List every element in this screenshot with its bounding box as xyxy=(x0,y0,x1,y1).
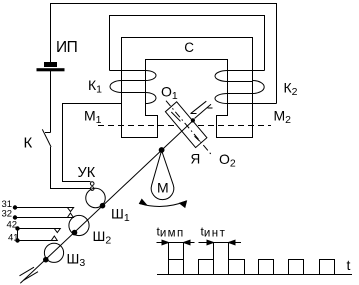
shaft link marks near armature xyxy=(191,101,213,118)
junction dot on armature xyxy=(191,119,194,122)
coil K1 turn 2 (window side) xyxy=(146,93,157,104)
wire M1 lead (coil K1 bottom to УК upper contact) xyxy=(63,104,122,182)
pivot dot xyxy=(159,148,164,153)
contact line 32 xyxy=(13,213,73,219)
wire battery to switch xyxy=(50,71,52,133)
contact line 31 xyxy=(13,206,73,212)
coil K2 turn 2 (window side) xyxy=(215,94,228,104)
pendulum M arms and bob xyxy=(151,151,174,200)
svg-text:УК: УК xyxy=(78,165,96,181)
armature hatch 1 xyxy=(171,112,180,121)
waveform pulse 2 xyxy=(199,260,214,275)
svg-text:С: С xyxy=(184,40,194,55)
dimension t_инт xyxy=(199,240,242,259)
wire outer loop bottom-right lead xyxy=(228,103,277,105)
dimension t_имп xyxy=(157,240,195,259)
svg-text:tимп: tимп xyxy=(157,225,185,240)
waveform pulse 1 xyxy=(169,260,184,275)
waveform pulse 6 xyxy=(320,260,335,275)
coil K1 link 1 xyxy=(122,80,146,82)
battery ИП xyxy=(37,63,64,71)
coil K2 turn 1 (window side) xyxy=(215,71,228,82)
svg-text:tинт: tинт xyxy=(201,225,227,240)
shaft (ratchet rod) xyxy=(20,121,193,284)
shaft break marks xyxy=(20,267,39,280)
dot Ш3 xyxy=(44,257,49,262)
svg-text:32: 32 xyxy=(2,209,13,220)
armature Я body xyxy=(165,102,207,148)
contact line 42 xyxy=(16,227,61,233)
coil K1 outer turn xyxy=(110,81,121,93)
armature hatch 2 xyxy=(195,136,200,141)
waveform pulse 5 xyxy=(289,260,304,275)
contact УК lower circle xyxy=(90,187,94,191)
coil K2 outer turn xyxy=(253,81,265,94)
coil K2 link 1 xyxy=(228,81,253,83)
pendulum swing arrow xyxy=(140,199,187,207)
wire outer loop top xyxy=(51,4,277,104)
svg-text:t: t xyxy=(347,257,351,273)
dashed pole line M1-M2 xyxy=(98,125,271,127)
svg-text:42: 42 xyxy=(7,220,18,231)
contact line 41 xyxy=(16,236,58,242)
waveform pulse 3 xyxy=(229,260,245,275)
wire switch to УК lower contact xyxy=(51,147,91,189)
cam Ш3 xyxy=(44,243,63,262)
coil K2 link 2 xyxy=(228,93,253,95)
waveform baseline xyxy=(157,274,352,276)
svg-text:ИП: ИП xyxy=(56,39,77,56)
core C outline xyxy=(122,38,253,138)
switch K xyxy=(42,129,51,147)
armature axis O1-O2 dash-dot xyxy=(166,101,212,156)
svg-text:Я: Я xyxy=(191,152,201,167)
dot Ш1 xyxy=(100,203,105,208)
wire middle loop xyxy=(110,16,265,71)
svg-text:К: К xyxy=(24,135,33,152)
svg-text:41: 41 xyxy=(8,232,19,243)
coil K1 top lead xyxy=(110,70,146,72)
coil K1 link 2 xyxy=(122,92,146,94)
coil K1 turn 1 (window side) xyxy=(146,71,157,81)
wire link 41-42 xyxy=(17,229,19,241)
waveform pulse 4 xyxy=(259,260,274,275)
contact УК upper circle xyxy=(90,182,94,186)
cam Ш2 xyxy=(69,215,89,235)
svg-text:М: М xyxy=(157,180,169,196)
dot Ш2 xyxy=(72,230,77,235)
coil K2 top lead xyxy=(228,70,265,72)
cam Ш1 xyxy=(86,188,106,208)
